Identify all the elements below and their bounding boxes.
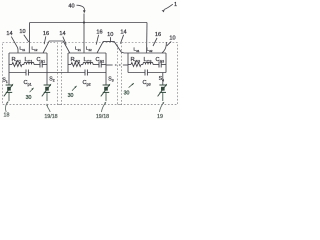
label 10 gap2 — [107, 32, 113, 38]
dashed box cell block 3 — [122, 43, 178, 105]
wire r-l block 2 — [81, 64, 83, 66]
label 16 far right — [155, 32, 161, 38]
wire bottom edge left block 3 — [128, 72, 145, 74]
svg-text:10: 10 — [19, 29, 25, 35]
svg-text:10: 10 — [169, 35, 175, 41]
wire post upper x=162.8 — [162, 73, 164, 85]
label 10 gap2 leader — [109, 37, 111, 41]
wire bridge 2 — [97, 42, 128, 53]
label R_W1 — [12, 57, 22, 63]
label 40 leader arrow — [77, 5, 86, 13]
wire r-l block 1 — [22, 64, 24, 66]
switch S2 symbol — [42, 84, 52, 97]
svg-text:14: 14 — [120, 29, 126, 35]
label 30 block3 — [124, 83, 134, 96]
cell model box block 2 — [68, 53, 106, 73]
label 10 far right leader — [167, 41, 171, 45]
wire series link block2-block3 right stub — [123, 64, 128, 66]
wire post upper x=106.0 — [105, 73, 107, 85]
svg-text:1: 1 — [174, 2, 177, 8]
wire l-c block 3 — [153, 64, 159, 66]
label 30 block1 — [26, 88, 34, 101]
label 1 leader arrow — [162, 4, 173, 12]
wire c-right block 1 — [42, 64, 47, 66]
dashed housing bottom gap b — [118, 104, 122, 106]
label 14 gap2 — [120, 29, 126, 35]
inductor L_C2 — [83, 62, 93, 64]
label S4 — [159, 76, 164, 82]
wire bus 40 top horizontal — [30, 22, 147, 24]
capacitor C_S2 plates — [99, 62, 101, 68]
label C_S2 — [96, 57, 105, 63]
label 16 gap2 — [96, 29, 102, 35]
label 16 gap1 leader — [44, 36, 46, 44]
switch S3 symbol — [101, 84, 111, 97]
wire block2 tap vertical — [83, 14, 85, 53]
label L_21 — [75, 46, 81, 52]
label 10 far left leader — [24, 35, 29, 42]
label L_12 — [32, 46, 38, 52]
lead block3 right — [162, 42, 166, 53]
wire bus left drop to block1 tap — [28, 23, 30, 53]
label L_11 — [20, 46, 26, 52]
label 40 — [68, 4, 74, 10]
wire series link block2-block3 left stub — [106, 64, 113, 66]
svg-text:18: 18 — [4, 112, 10, 118]
wire c-right block 2 — [101, 64, 106, 66]
label C_P2 — [83, 80, 91, 86]
capacitor C_S1 plates — [40, 62, 42, 68]
svg-text:14: 14 — [59, 31, 65, 37]
svg-text:10: 10 — [107, 32, 113, 38]
label 14 gap1 — [59, 31, 65, 37]
terminal arrow 19 — [157, 102, 164, 120]
label C_S3 — [156, 57, 165, 63]
label 16 gap2 leader — [96, 35, 98, 45]
dashed housing bottom gap a — [58, 104, 62, 106]
label L_22 — [86, 46, 92, 52]
svg-text:19: 19 — [157, 114, 163, 120]
svg-text:16: 16 — [155, 32, 161, 38]
label L_31 — [134, 47, 140, 53]
label C_P3 — [143, 80, 151, 86]
label S2 — [49, 76, 54, 82]
capacitor C_p1 plates — [26, 70, 28, 76]
label 1 — [174, 2, 177, 8]
wire l-c block 1 — [34, 64, 40, 66]
label L_C1 — [25, 57, 33, 63]
label R_W3 — [131, 57, 141, 63]
ellipsis continuation dots — [115, 64, 121, 66]
wire mid-left block 1 — [9, 64, 12, 66]
label L_C2 — [84, 57, 92, 63]
svg-text:14: 14 — [6, 31, 12, 37]
label L_32 — [147, 47, 153, 53]
switch S1 symbol — [4, 84, 14, 97]
wire mid-left block 3 — [128, 64, 131, 66]
svg-text:16: 16 — [43, 31, 49, 37]
svg-text:40: 40 — [68, 4, 74, 10]
label 16 gap1 — [43, 31, 49, 37]
label S3 — [108, 76, 113, 82]
inductor L_C1 — [24, 62, 34, 64]
resistor R_W1 — [12, 63, 22, 67]
resistor R_W2 — [71, 63, 81, 67]
resistor R_W3 — [131, 63, 141, 67]
wire bottom edge left block 1 — [9, 72, 26, 74]
label 14 gap2 leader — [120, 35, 123, 44]
svg-text:30: 30 — [68, 93, 74, 99]
label L_C3 — [144, 57, 152, 63]
svg-text:16: 16 — [96, 29, 102, 35]
inductor L_C3 — [143, 62, 153, 64]
capacitor C_S3 plates — [159, 62, 161, 68]
wire bottom edge right block 2 — [87, 72, 106, 74]
wire mid-left block 2 — [68, 64, 71, 66]
label 14 gap1 leader — [63, 37, 66, 45]
cell model box block 1 — [9, 53, 47, 73]
wire post upper x=9.0 — [8, 73, 10, 85]
wire post lower x=47.0 — [46, 92, 48, 101]
wire bottom edge left block 2 — [68, 72, 85, 74]
terminal arrow 18 — [4, 101, 10, 118]
wire c-right block 3 — [161, 64, 166, 66]
label C_S1 — [37, 57, 46, 63]
lead block1 left (terminal 14) — [11, 37, 18, 53]
dashed box cell block 2 — [62, 43, 118, 105]
svg-text:19/18: 19/18 — [44, 114, 57, 120]
switch S4 symbol — [158, 84, 168, 97]
svg-text:30: 30 — [124, 90, 130, 96]
label 14 far left — [6, 31, 12, 37]
wire bridge 1 — [43, 41, 70, 53]
wire post lower x=106.0 — [105, 92, 107, 101]
dashed box cell block 1 — [3, 43, 58, 105]
capacitor C_p3 plates — [145, 70, 147, 76]
capacitor C_p2 plates — [85, 70, 87, 76]
label 16 far right leader — [153, 38, 157, 46]
label 30 block2 — [68, 86, 77, 99]
wire post lower x=162.8 — [162, 92, 164, 101]
wire r-l block 3 — [141, 64, 143, 66]
wire bottom edge right block 3 — [147, 72, 166, 74]
label 10 far right — [169, 35, 175, 41]
terminal arrow 19/18 b — [96, 102, 109, 120]
wire bus right drop to block3 tap — [146, 23, 148, 53]
wire series link block1-block2 — [47, 72, 68, 74]
wire bottom edge right block 1 — [28, 72, 47, 74]
wire l-c block 2 — [93, 64, 99, 66]
wire post upper x=47.0 — [46, 73, 48, 85]
node bus junction block2 tap — [83, 21, 85, 23]
label R_W2 — [71, 57, 81, 63]
label C_P1 — [24, 80, 32, 86]
label 10 far left — [19, 29, 25, 35]
wire post lower x=9.0 — [8, 92, 10, 101]
svg-text:19/18: 19/18 — [96, 114, 109, 120]
terminal arrow 19/18 a — [44, 103, 57, 119]
label S1 — [2, 78, 7, 84]
cell model box block 3 — [128, 53, 166, 73]
svg-text:30: 30 — [26, 95, 32, 101]
